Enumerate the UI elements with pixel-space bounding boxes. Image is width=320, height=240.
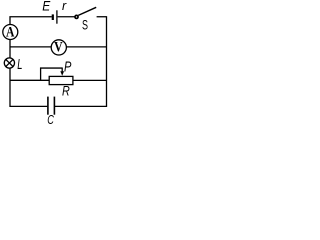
svg-text:R: R xyxy=(62,84,70,100)
battery E negative plate (short thick) xyxy=(52,14,54,20)
wire slider horizontal xyxy=(40,67,62,69)
lamp L xyxy=(4,58,14,68)
wire voltmeter left lead xyxy=(10,46,51,48)
rheostat R body xyxy=(49,76,73,84)
capacitor C left plate xyxy=(47,97,49,115)
svg-text:L: L xyxy=(17,57,22,73)
wire right column xyxy=(106,16,108,106)
wire top-left: ammeter top stub to battery negative plate xyxy=(10,17,52,25)
svg-text:E: E xyxy=(42,0,51,14)
svg-text:r: r xyxy=(62,0,67,13)
wire slider vertical link xyxy=(40,68,42,81)
wire left column: ammeter to lamp (V tap at y=46.4) xyxy=(9,40,11,59)
ammeter A xyxy=(3,25,18,40)
svg-text:V: V xyxy=(54,39,63,55)
wire capacitor right plate to bottom-right corner xyxy=(55,105,107,107)
svg-text:A: A xyxy=(6,24,15,40)
battery E positive plate (long thin) xyxy=(56,10,58,23)
wire main mid: left column junction to rheostat left terminal xyxy=(10,79,49,81)
svg-text:P: P xyxy=(64,59,71,76)
wire lamp bottom to bottom-left corner to capacitor left plate xyxy=(10,68,47,106)
wire voltmeter right lead xyxy=(66,46,106,48)
wire rheostat right terminal to right column xyxy=(73,79,107,81)
svg-text:C: C xyxy=(47,112,54,125)
switch S pivot xyxy=(75,15,78,18)
switch S lever xyxy=(78,7,96,15)
voltmeter V xyxy=(51,40,66,55)
slider arrow P xyxy=(61,68,63,73)
wire battery positive to switch pivot xyxy=(58,16,75,18)
capacitor C right plate xyxy=(53,97,55,115)
wire switch right to top-right corner xyxy=(97,16,107,18)
svg-text:S: S xyxy=(82,18,88,33)
